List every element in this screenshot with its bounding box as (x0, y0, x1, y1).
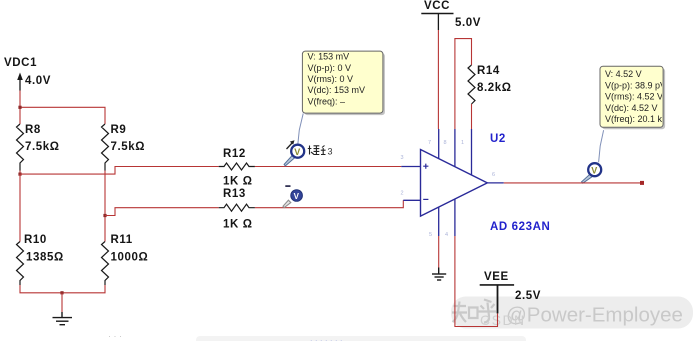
svg-text:3: 3 (401, 155, 404, 161)
output end dot (640, 181, 644, 185)
wire VCC to pin 7 (437, 30, 439, 129)
pin stub output (487, 182, 504, 184)
svg-text:V(dc): 153 mV: V(dc): 153 mV (308, 85, 366, 95)
svg-text:. . . . . . .: . . . . . . . (310, 333, 343, 341)
node B dot (103, 214, 106, 217)
wire R12 to op-amp (255, 166, 401, 168)
resistor R9 (102, 124, 146, 171)
svg-text:V(p-p): 0 V: V(p-p): 0 V (308, 63, 352, 73)
svg-text:V(freq): 20.1 k: V(freq): 20.1 k (605, 114, 663, 124)
resistor R8 (17, 124, 60, 171)
node dot bottom rail (60, 291, 63, 294)
wire node A to R12 (20, 167, 219, 175)
wire bottom rail (20, 285, 105, 293)
svg-text:R10: R10 (24, 234, 47, 246)
wire top rail (20, 107, 105, 124)
wire node B to R13 (105, 208, 219, 216)
node A dot (18, 173, 21, 176)
svg-text:1000Ω: 1000Ω (111, 252, 149, 264)
plus sign (423, 164, 428, 169)
svg-text:CSDN: CSDN (480, 312, 526, 328)
svg-text:R9: R9 (111, 124, 127, 136)
svg-text:4.0V: 4.0V (25, 75, 51, 87)
wire ground stem left (61, 293, 63, 312)
pin stub minus input (403, 199, 420, 201)
wire R8 tail to node A (19, 171, 21, 175)
svg-text:V: V (591, 166, 597, 176)
wire R9 branch vertical (104, 171, 106, 242)
probe V2 minus (283, 185, 302, 207)
wire pin 1 up over to R14 (455, 39, 472, 129)
svg-text:@Power-Employee: @Power-Employee (506, 304, 683, 327)
resistor R14 (468, 65, 512, 104)
minus sign (423, 198, 428, 200)
svg-text:2.5V: 2.5V (515, 290, 541, 302)
VEE symbol (480, 271, 541, 313)
VCC symbol (421, 0, 481, 30)
svg-text:8.2kΩ: 8.2kΩ (477, 82, 512, 94)
probe V3 output (582, 163, 602, 183)
svg-text:V: 4.52 V: V: 4.52 V (605, 69, 642, 79)
resistor R13 (219, 188, 255, 231)
pin stubs top (438, 129, 440, 159)
svg-text:R11: R11 (111, 234, 133, 246)
svg-text:7.5kΩ: 7.5kΩ (111, 141, 146, 153)
svg-text:VDC1: VDC1 (4, 57, 37, 69)
faint bottom-left marks (196, 336, 526, 341)
wire pin 4 to VEE (455, 236, 498, 327)
svg-text:3: 3 (328, 147, 333, 157)
svg-text:R14: R14 (477, 65, 500, 77)
svg-text:7.5kΩ: 7.5kΩ (25, 141, 60, 153)
svg-text:2: 2 (401, 191, 404, 197)
svg-text:R13: R13 (223, 188, 246, 200)
svg-text:V(freq): –: V(freq): – (308, 96, 346, 106)
probe V1 (探针3) (284, 140, 304, 166)
wire node A to R10 (19, 174, 21, 241)
svg-text:4: 4 (445, 232, 448, 238)
svg-text:V(dc): 4.52 V: V(dc): 4.52 V (605, 103, 658, 113)
svg-text:8: 8 (444, 140, 447, 146)
svg-text:· · ·: · · · (108, 331, 122, 341)
ground left (53, 312, 73, 325)
svg-text:V(p-p): 38.9 pV: V(p-p): 38.9 pV (605, 80, 666, 90)
svg-text:6: 6 (492, 172, 495, 178)
label 探针3 (308, 146, 326, 155)
resistor R12 (219, 148, 255, 188)
svg-text:V(rms): 0 V: V(rms): 0 V (308, 74, 354, 84)
svg-text:R12: R12 (223, 148, 246, 160)
op-amp U2 triangle (421, 150, 488, 217)
svg-text:1K Ω: 1K Ω (223, 176, 253, 188)
source VDC1 arrow (17, 73, 23, 91)
svg-text:R8: R8 (25, 124, 41, 136)
resistor R10 (17, 234, 64, 285)
svg-text:V: V (294, 147, 300, 157)
node dot top rail (18, 106, 21, 109)
pin stubs bottom (438, 207, 440, 236)
svg-text:V: 153 mV: V: 153 mV (308, 52, 350, 62)
svg-text:VCC: VCC (424, 0, 450, 12)
resistor R11 (102, 234, 149, 285)
svg-text:U2: U2 (490, 133, 506, 145)
svg-text:5: 5 (429, 232, 432, 238)
wire output (504, 182, 642, 184)
pin stub plus input (401, 166, 420, 168)
wire pin 5 to ground (438, 236, 440, 268)
svg-text:V(rms): 4.52 V: V(rms): 4.52 V (605, 92, 663, 102)
svg-text:V: V (294, 192, 300, 201)
svg-text:AD 623AN: AD 623AN (490, 221, 550, 233)
svg-text:1K Ω: 1K Ω (223, 219, 253, 231)
probe V1 connector line (298, 114, 303, 145)
wire VDC1 to top rail (19, 91, 21, 125)
svg-text:VEE: VEE (484, 271, 509, 283)
svg-text:7: 7 (428, 140, 431, 146)
watermark band bottom right (451, 297, 693, 329)
svg-text:1: 1 (461, 140, 464, 146)
wire R14 to pin 8 (471, 104, 473, 129)
wire R13 to op-amp jog (255, 200, 403, 207)
svg-text:1385Ω: 1385Ω (26, 252, 64, 264)
probe V3 connector line (599, 130, 604, 162)
ground right (432, 268, 446, 281)
svg-text:5.0V: 5.0V (455, 17, 481, 29)
